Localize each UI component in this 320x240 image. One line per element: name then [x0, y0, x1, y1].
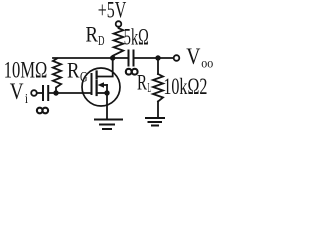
svg-text:oo: oo [201, 57, 213, 72]
wire R_L to ground [157, 102, 159, 118]
wire output node down [157, 58, 159, 74]
output terminal [174, 55, 180, 61]
svg-text:V: V [10, 79, 24, 104]
svg-text:V: V [186, 44, 201, 69]
C_in value ∞ [37, 108, 48, 114]
label R_G [67, 58, 88, 86]
svg-text:+5V: +5V [98, 0, 127, 24]
node output junction dot [155, 55, 160, 60]
resistor R_D zigzag [113, 27, 124, 58]
svg-text:R: R [86, 22, 99, 47]
M1 channel segment bottom [95, 89, 97, 96]
node drain junction dot [110, 55, 115, 60]
label R_D [86, 22, 105, 50]
svg-text:R: R [137, 70, 147, 95]
M1 drain lead [97, 58, 113, 77]
C_out value ∞ [126, 69, 138, 75]
resistor R_G zigzag [53, 59, 61, 93]
svg-text:i: i [25, 92, 28, 107]
M1 channel segment middle [95, 81, 97, 87]
capacitor C_out plates [128, 51, 130, 66]
resistor R_L zigzag [153, 74, 163, 102]
input terminal [31, 90, 37, 96]
svg-text:5kΩ: 5kΩ [124, 25, 149, 51]
node gate junction dot [53, 90, 58, 95]
node source-body dot [104, 90, 109, 95]
M1 body arrow [102, 84, 107, 86]
M1 gate bar [91, 74, 93, 94]
MOSFET M1 envelope [82, 68, 120, 106]
wire capacitor to output node [135, 57, 174, 59]
ground under R_L [146, 118, 164, 126]
svg-text:L: L [148, 81, 152, 96]
input label V_i [10, 79, 28, 107]
wire drain horizontal [53, 57, 128, 59]
wire input to capacitor [37, 92, 42, 94]
capacitor C_in plates [42, 86, 44, 100]
ground under source [95, 120, 122, 130]
M1 source lead [97, 92, 107, 94]
output label V_oo [186, 44, 213, 72]
svg-text:D: D [98, 34, 105, 49]
wire gate [49, 92, 91, 94]
svg-text:R: R [67, 58, 80, 83]
svg-text:10kΩ2: 10kΩ2 [163, 74, 207, 100]
label R_L [137, 70, 151, 96]
M1 channel segment top [95, 72, 97, 79]
wire source to ground [106, 93, 108, 119]
M1 body to source link [106, 85, 108, 93]
+5V supply terminal [116, 21, 122, 27]
